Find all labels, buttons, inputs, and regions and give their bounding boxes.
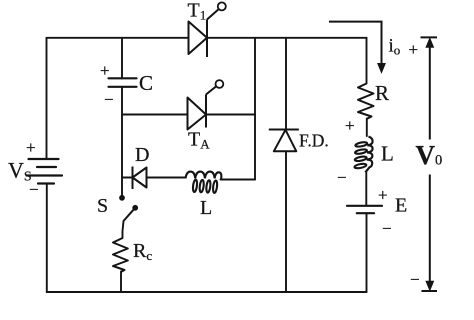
- svg-text:D: D: [135, 144, 149, 166]
- wire D anode to inductor L: [147, 177, 186, 179]
- thyristor TA: [188, 80, 224, 129]
- svg-text:+: +: [26, 138, 36, 157]
- svg-text:TA: TA: [188, 129, 210, 152]
- svg-text:−: −: [337, 168, 347, 187]
- svg-text:+: +: [345, 116, 355, 135]
- wire top left (Vs+ to T1 anode): [47, 37, 189, 39]
- svg-text:F.D.: F.D.: [299, 131, 329, 151]
- svg-text:S: S: [97, 195, 108, 217]
- wire FD vertical top (top wire to FD cathode): [285, 38, 287, 130]
- svg-text:−: −: [382, 219, 392, 238]
- inductor L (commutation): [186, 172, 222, 193]
- wire mid vertical (top wire down to L branch): [254, 38, 256, 180]
- wire bottom (full bottom rail): [47, 291, 367, 293]
- wire Rc to bottom rail: [120, 272, 122, 293]
- svg-text:C: C: [139, 71, 153, 95]
- wire R to L (load): [366, 119, 368, 137]
- svg-text:L: L: [381, 142, 394, 166]
- wire E to bottom rail: [366, 214, 368, 293]
- thyristor T1: [189, 2, 226, 57]
- wire load vertical top (corner to R): [366, 38, 368, 84]
- wire D stub (branch node to D cathode): [122, 177, 133, 179]
- resistor R (load): [358, 84, 374, 119]
- wire top right (T1 cathode to load corner): [207, 37, 367, 39]
- svg-text:+: +: [409, 40, 419, 59]
- capacitor C: [109, 78, 137, 87]
- svg-text:−: −: [29, 180, 39, 199]
- diode FD (freewheeling): [269, 130, 299, 152]
- svg-text:io: io: [389, 36, 401, 58]
- svg-text:V0: V0: [416, 140, 443, 170]
- battery Vs: [27, 159, 63, 184]
- svg-text:R: R: [375, 81, 389, 105]
- diode D: [133, 167, 147, 190]
- wire capacitor branch top (top wire to C): [121, 38, 123, 79]
- svg-text:+: +: [378, 186, 388, 205]
- switch S: [120, 195, 138, 221]
- svg-text:E: E: [395, 195, 407, 217]
- wire FD anode to bottom rail: [285, 152, 287, 293]
- resistor Rc: [113, 238, 128, 272]
- inductor L (load): [354, 137, 372, 173]
- wire TA branch left (C branch to TA anode): [122, 114, 188, 116]
- wire switch blade to Rc: [123, 221, 124, 238]
- svg-text:−: −: [410, 270, 420, 289]
- wire L to E (load): [365, 172, 367, 206]
- svg-text:Rc: Rc: [133, 240, 152, 263]
- battery E: [347, 206, 382, 213]
- svg-text:−: −: [104, 90, 114, 109]
- wire left vertical upper (top wire to Vs+): [46, 38, 48, 159]
- wire capacitor bottom to switch node: [121, 87, 123, 196]
- svg-text:T1: T1: [188, 0, 207, 23]
- svg-text:+: +: [100, 61, 110, 80]
- arrow Vo (output voltage indicator): [421, 37, 438, 291]
- arrow io: [329, 22, 385, 73]
- wire left vertical lower (Vs- to bottom wire): [46, 184, 48, 293]
- svg-text:L: L: [200, 197, 212, 219]
- wire TA branch right (TA cathode to mid vertical): [206, 114, 255, 116]
- wire L coil to mid vertical: [221, 179, 256, 181]
